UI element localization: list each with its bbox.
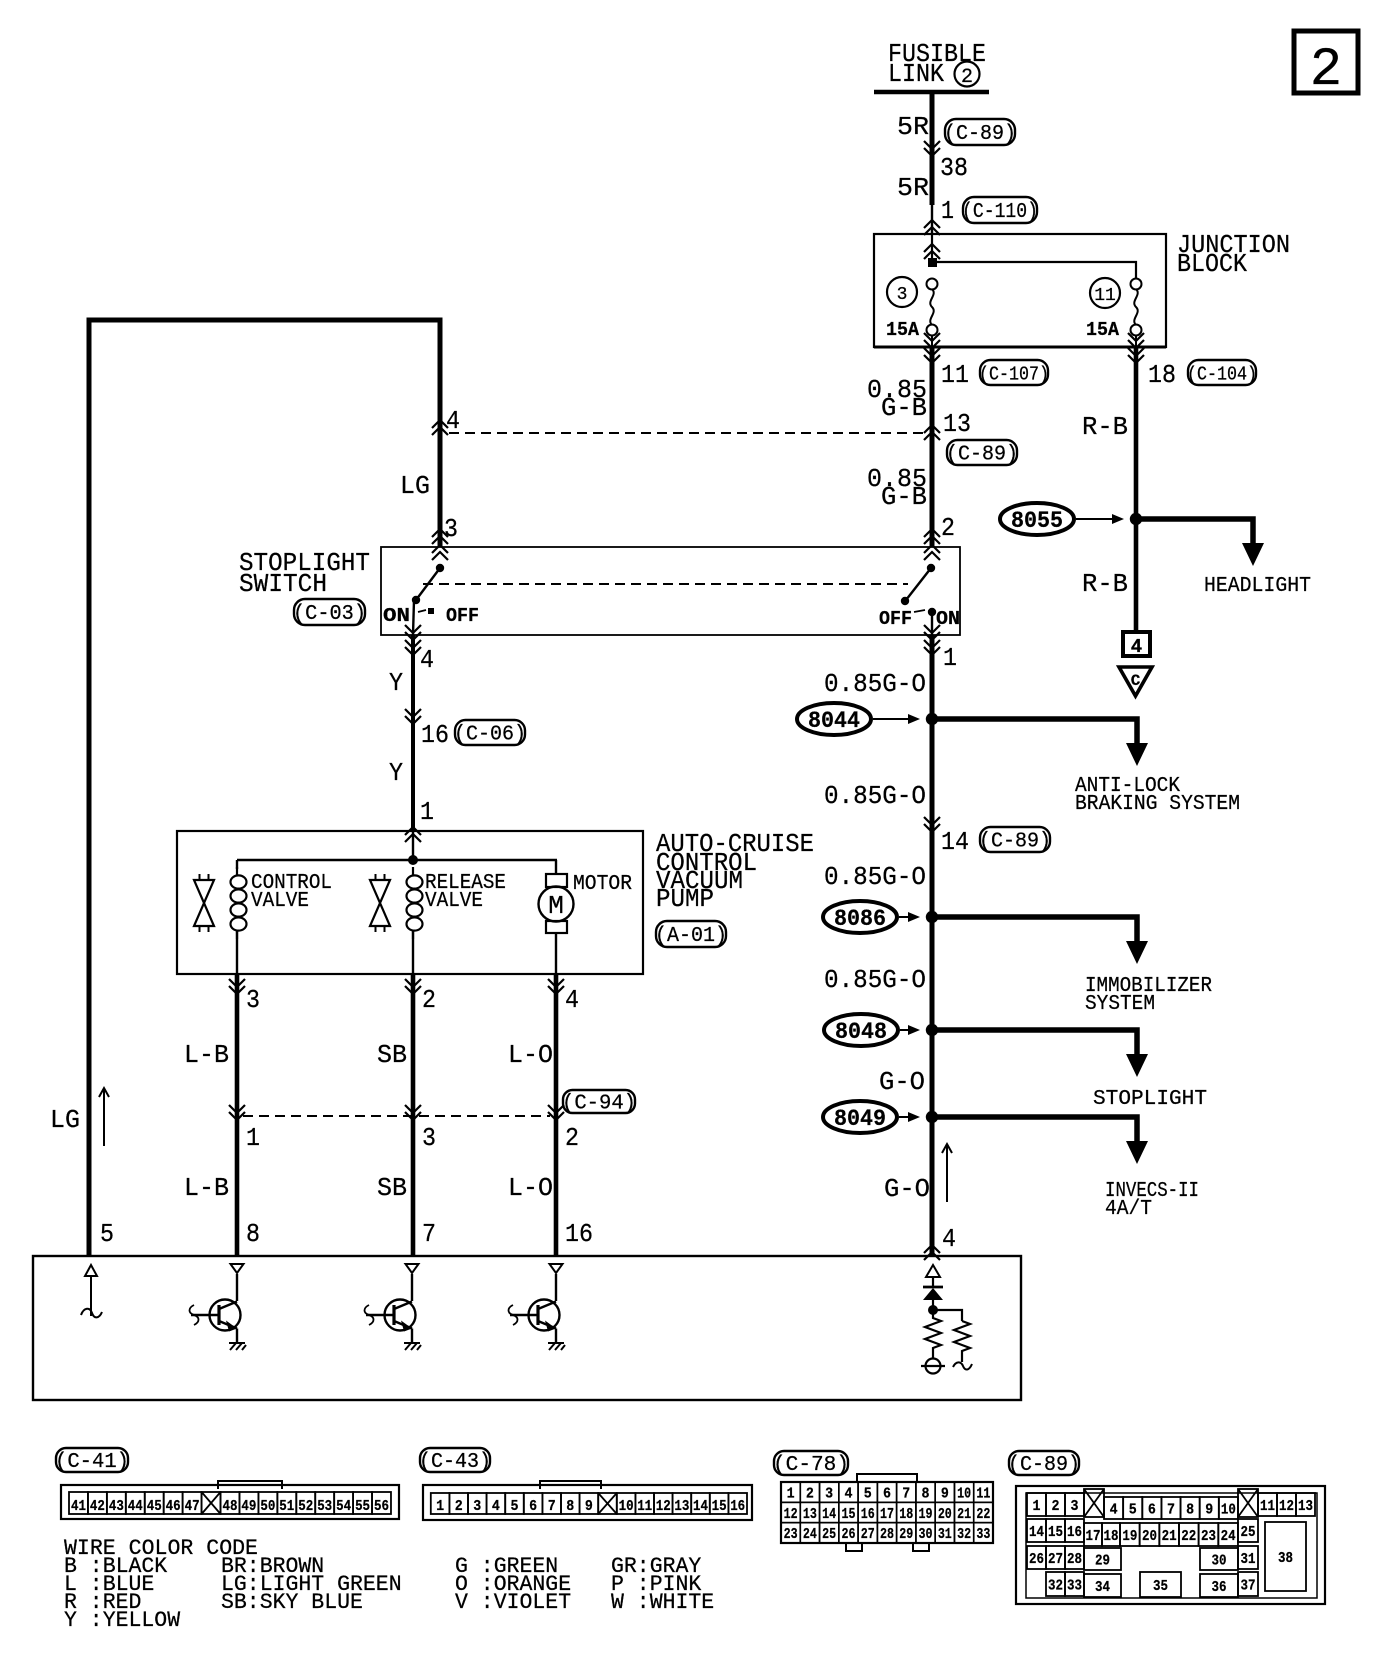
svg-text:3: 3 (473, 1498, 481, 1515)
svg-text:24: 24 (1221, 1528, 1236, 1545)
svg-text:3: 3 (897, 285, 908, 305)
wire into junction node (931, 234, 933, 262)
svg-text:(A-01): (A-01) (655, 925, 727, 948)
svg-text:13: 13 (1298, 1498, 1313, 1515)
svg-text:(C-94): (C-94) (562, 1093, 636, 1116)
svg-text:4: 4 (844, 1486, 852, 1503)
wire G-O main (930, 635, 935, 1256)
dashed link line C-94 (243, 1115, 550, 1117)
svg-text:14: 14 (822, 1506, 836, 1523)
ground oval 8049 (823, 1101, 897, 1133)
chevron into stoplight switch right (924, 529, 940, 560)
connector pill C-107 (979, 360, 1049, 386)
connector pill C-43 (419, 1448, 491, 1474)
svg-text:0.85G-O: 0.85G-O (824, 669, 926, 699)
label ANTI-LOCK BRAKING SYSTEM (1075, 775, 1240, 816)
svg-text:8086: 8086 (834, 906, 886, 932)
fusible link 2 label (888, 39, 986, 89)
chevron out of switch right pin 1 (924, 625, 940, 655)
release valve coil (407, 867, 423, 974)
svg-text:8048: 8048 (835, 1019, 887, 1045)
arrow 8044 to wire (873, 714, 920, 724)
pump internal bus (237, 859, 557, 861)
wire SB pump pin 2 (411, 974, 416, 1256)
svg-text:3: 3 (444, 514, 458, 544)
svg-text:44: 44 (128, 1498, 143, 1515)
svg-text:STOPLIGHT: STOPLIGHT (1093, 1088, 1207, 1111)
control valve symbol (194, 874, 214, 932)
svg-text:0.85G-O: 0.85G-O (824, 781, 926, 811)
svg-text:4A/T: 4A/T (1105, 1198, 1152, 1221)
svg-text:27: 27 (1048, 1551, 1063, 1568)
stoplight switch right pole (901, 564, 936, 635)
svg-text:43: 43 (109, 1498, 124, 1515)
svg-text:L-O: L-O (508, 1040, 553, 1070)
connector C-89 pin grid (1016, 1486, 1325, 1604)
page number box 2 (1294, 31, 1358, 101)
release valve label (425, 872, 506, 913)
junction dot 8044 (926, 713, 938, 725)
svg-text:46: 46 (166, 1498, 181, 1515)
branch to INVECS-II 4A/T (932, 1117, 1148, 1164)
chevron into pump pin 1 (405, 827, 421, 842)
stoplight switch label (239, 548, 370, 599)
svg-text:3: 3 (1071, 1498, 1079, 1515)
junction dot 8048 (926, 1024, 938, 1036)
svg-text:23: 23 (1201, 1528, 1216, 1545)
svg-text:7: 7 (1167, 1502, 1175, 1519)
svg-text:2: 2 (565, 1123, 579, 1153)
chevron out pump pin 3 (229, 979, 245, 994)
svg-text:26: 26 (1029, 1551, 1044, 1568)
svg-text:MOTOR: MOTOR (573, 873, 632, 896)
svg-text:28: 28 (880, 1526, 894, 1543)
svg-text:2: 2 (455, 1498, 463, 1515)
svg-text:7: 7 (422, 1219, 436, 1249)
svg-text:30: 30 (919, 1526, 933, 1543)
chevron on LG wire pin 4 (432, 420, 448, 435)
connector triangle C (1119, 667, 1152, 696)
svg-text:19: 19 (1122, 1528, 1137, 1545)
connector pill C-89 table (1008, 1451, 1080, 1477)
chevron pin 16 (405, 709, 421, 724)
svg-text:5: 5 (511, 1498, 519, 1515)
svg-text:56: 56 (374, 1498, 389, 1515)
svg-text:14: 14 (693, 1498, 708, 1515)
chevron C-94 pin 1 (229, 1105, 245, 1120)
svg-text:3: 3 (246, 985, 260, 1015)
connector pill C-06 (454, 720, 526, 747)
branch to stoplight (932, 1030, 1148, 1077)
fuse 11 body (1131, 279, 1142, 336)
svg-text:0.85G-O: 0.85G-O (824, 965, 926, 995)
transistor Q3 (509, 1264, 566, 1350)
wire Y (411, 635, 415, 831)
svg-text:15: 15 (712, 1498, 727, 1515)
svg-text:21: 21 (957, 1506, 971, 1523)
svg-text:5: 5 (100, 1219, 114, 1249)
svg-text:51: 51 (279, 1498, 294, 1515)
svg-text:(C-41): (C-41) (55, 1451, 129, 1474)
current direction arrow G-O (942, 1144, 952, 1202)
svg-text:BRAKING SYSTEM: BRAKING SYSTEM (1075, 793, 1240, 816)
junction block label (1177, 230, 1290, 279)
svg-text:VALVE: VALVE (425, 890, 483, 913)
svg-text:50: 50 (260, 1498, 275, 1515)
wire color code legend (64, 1536, 714, 1633)
wire 5R lower segment (931, 205, 933, 234)
sensor symbol pin 5 (81, 1265, 102, 1317)
connector C-78 pin grid (781, 1474, 993, 1551)
svg-text:Y :YELLOW: Y :YELLOW (64, 1608, 181, 1633)
svg-text:25: 25 (1241, 1524, 1256, 1541)
svg-text:41: 41 (71, 1498, 86, 1515)
svg-text:(C-78): (C-78) (773, 1454, 849, 1477)
svg-text:13: 13 (674, 1498, 689, 1515)
arrow 8086 to wire (899, 912, 920, 922)
connector C-43 pin grid (423, 1481, 752, 1520)
svg-text:10: 10 (619, 1498, 634, 1515)
svg-text:M: M (548, 891, 564, 921)
svg-text:18: 18 (1148, 360, 1176, 390)
svg-text:2: 2 (1310, 40, 1342, 101)
svg-text:8044: 8044 (808, 708, 860, 734)
svg-text:53: 53 (317, 1498, 332, 1515)
connector pill C-89 lower (979, 827, 1051, 854)
current direction arrow LG (99, 1088, 109, 1146)
svg-text:(C-89): (C-89) (1008, 1454, 1080, 1477)
wire L-B pump pin 3 (235, 974, 240, 1256)
connector pill C-78 (773, 1451, 849, 1477)
wire G-B from junction block (930, 347, 935, 547)
svg-text:29: 29 (899, 1526, 913, 1543)
switch dashed coupling line (423, 583, 908, 585)
svg-text:1: 1 (787, 1486, 795, 1503)
svg-text:15A: 15A (886, 319, 920, 341)
svg-text:42: 42 (90, 1498, 105, 1515)
svg-text:1: 1 (246, 1123, 260, 1153)
ground oval 8055 (1000, 503, 1074, 535)
chevron leaving fuse 11 (1128, 333, 1144, 363)
svg-text:15: 15 (1048, 1524, 1063, 1541)
wire LG long loop (89, 320, 440, 1256)
svg-text:8: 8 (922, 1486, 930, 1503)
svg-text:R-B: R-B (1082, 569, 1128, 599)
svg-text:11: 11 (976, 1486, 990, 1503)
svg-text:L-B: L-B (184, 1040, 229, 1070)
svg-text:38: 38 (940, 153, 968, 183)
svg-text:13: 13 (943, 409, 971, 439)
svg-text:17: 17 (1086, 1528, 1101, 1545)
svg-text:2: 2 (961, 66, 973, 89)
svg-text:SYSTEM: SYSTEM (1085, 993, 1155, 1016)
fusible link bus bar (874, 90, 989, 95)
svg-text:21: 21 (1162, 1528, 1177, 1545)
svg-text:(C-104): (C-104) (1187, 364, 1257, 386)
transistor Q1 (190, 1264, 247, 1350)
svg-text:(C-110): (C-110) (962, 201, 1038, 224)
svg-text:20: 20 (938, 1506, 952, 1523)
svg-text:(C-107): (C-107) (979, 364, 1049, 386)
pump internal feed wire (412, 831, 414, 861)
chevron out pump pin 2 (405, 979, 421, 994)
arrow 8055 to wire (1076, 514, 1124, 524)
connector pill C-41 (55, 1448, 129, 1474)
svg-text:16: 16 (730, 1498, 745, 1515)
svg-text:18: 18 (1104, 1528, 1119, 1545)
svg-text:29: 29 (1095, 1553, 1110, 1570)
junction dot 8086 (926, 911, 938, 923)
svg-text:17: 17 (880, 1506, 894, 1523)
svg-text:(C-89): (C-89) (944, 123, 1016, 146)
auto-cruise pump label (656, 829, 814, 914)
svg-text:8: 8 (1186, 1502, 1194, 1519)
svg-text:2: 2 (1052, 1498, 1060, 1515)
svg-text:8049: 8049 (834, 1106, 886, 1132)
connector pill A-01 (655, 921, 727, 948)
svg-text:35: 35 (1153, 1578, 1168, 1595)
svg-text:0.85G-O: 0.85G-O (824, 862, 926, 892)
svg-text:36: 36 (1212, 1579, 1227, 1596)
svg-text:Y: Y (389, 668, 403, 698)
svg-text:47: 47 (185, 1498, 200, 1515)
svg-text:23: 23 (784, 1526, 798, 1543)
ground oval 8048 (824, 1014, 898, 1046)
svg-text:11: 11 (1094, 286, 1116, 306)
svg-text:27: 27 (861, 1526, 875, 1543)
ground oval 8044 (797, 703, 871, 735)
svg-text:10: 10 (1221, 1502, 1236, 1519)
svg-text:Y: Y (389, 758, 403, 788)
terminal box 4 (1123, 632, 1150, 658)
svg-text:4: 4 (565, 985, 579, 1015)
svg-text:37: 37 (1241, 1578, 1256, 1595)
chevron pin 13 (924, 425, 940, 440)
svg-text:54: 54 (336, 1498, 351, 1515)
svg-text:33: 33 (976, 1526, 990, 1543)
svg-text:55: 55 (355, 1498, 370, 1515)
svg-text:14: 14 (1029, 1524, 1044, 1541)
svg-text:16: 16 (861, 1506, 875, 1523)
svg-text:32: 32 (957, 1526, 971, 1543)
svg-text:18: 18 (899, 1506, 913, 1523)
svg-text:33: 33 (1067, 1578, 1082, 1595)
svg-text:(C-43): (C-43) (419, 1451, 491, 1474)
wire R-B from junction block (1134, 347, 1139, 632)
fuse 11 circle label (1090, 278, 1120, 308)
svg-text:OFF: OFF (446, 605, 479, 627)
svg-text:9: 9 (585, 1498, 593, 1515)
svg-text:G-B: G-B (881, 482, 927, 512)
svg-text:15: 15 (841, 1506, 855, 1523)
svg-text:4: 4 (420, 645, 434, 675)
svg-text:7: 7 (548, 1498, 556, 1515)
svg-text:V :VIOLET: V :VIOLET (455, 1590, 571, 1615)
chevron into stoplight switch left (432, 529, 448, 560)
svg-text:11: 11 (941, 360, 969, 390)
svg-text:22: 22 (976, 1506, 990, 1523)
svg-text:W :WHITE: W :WHITE (611, 1590, 714, 1615)
svg-text:26: 26 (841, 1526, 855, 1543)
svg-text:PUMP: PUMP (656, 884, 714, 914)
arrow 8048 to wire (900, 1025, 920, 1035)
branch to anti-lock braking system (932, 719, 1148, 766)
wire across junction block (932, 262, 1136, 278)
svg-text:(C-06): (C-06) (454, 724, 526, 747)
svg-text:13: 13 (803, 1506, 817, 1523)
svg-text:(C-89): (C-89) (979, 831, 1051, 854)
svg-text:4: 4 (446, 406, 460, 436)
fuse 3 body (927, 279, 938, 336)
svg-text:5R: 5R (897, 173, 929, 203)
diode and resistor network (921, 1265, 972, 1374)
chevron pin 14 (924, 817, 940, 832)
svg-text:22: 22 (1181, 1528, 1196, 1545)
svg-text:31: 31 (938, 1526, 952, 1543)
svg-text:G-B: G-B (881, 393, 927, 423)
svg-text:30: 30 (1212, 1553, 1227, 1570)
wire L-O pump pin 4 (554, 974, 559, 1256)
chevron out of C-110 pin 1 (924, 220, 940, 235)
chevron C-94 pin 3 (405, 1105, 421, 1120)
connector pill C-104 (1187, 360, 1257, 386)
chevron into bottom unit pin 4 (924, 1245, 940, 1260)
svg-text:6: 6 (529, 1498, 537, 1515)
svg-text:6: 6 (883, 1486, 891, 1503)
svg-text:LINK: LINK (888, 59, 944, 89)
motor M (539, 860, 574, 974)
branch to headlight (1136, 519, 1264, 566)
connector pill C-94 (562, 1090, 636, 1116)
svg-text:1: 1 (943, 643, 957, 673)
connector pill C-110 (962, 197, 1038, 224)
connector pill C-89 top (944, 119, 1016, 146)
svg-text:7: 7 (902, 1486, 910, 1503)
arrow 8049 to wire (899, 1112, 920, 1122)
chevron C-94 pin 2 (548, 1105, 564, 1120)
svg-text:1: 1 (420, 797, 434, 827)
svg-text:2: 2 (806, 1486, 814, 1503)
svg-text:14: 14 (941, 827, 969, 857)
svg-text:24: 24 (803, 1526, 817, 1543)
junction dot 8049 (926, 1111, 938, 1123)
svg-text:5: 5 (864, 1486, 872, 1503)
svg-text:G-O: G-O (879, 1067, 925, 1097)
svg-text:L-B: L-B (184, 1173, 229, 1203)
junction block box (874, 234, 1166, 347)
svg-text:HEADLIGHT: HEADLIGHT (1204, 575, 1311, 598)
dash between OFF and ON (914, 610, 925, 612)
junction dot headlight (1130, 513, 1142, 525)
bottom control unit box (33, 1256, 1021, 1400)
svg-text:SB: SB (377, 1040, 407, 1070)
svg-text:SB:SKY BLUE: SB:SKY BLUE (221, 1590, 363, 1615)
chevron entering junction block (924, 244, 940, 259)
label INVECS-II 4A/T (1105, 1180, 1199, 1221)
connector C-41 pin grid (61, 1481, 399, 1519)
transistor Q2 (365, 1264, 422, 1350)
svg-text:48: 48 (222, 1498, 237, 1515)
OFF contact left (418, 608, 434, 614)
svg-text:ON: ON (383, 605, 410, 627)
svg-text:20: 20 (1142, 1528, 1157, 1545)
wire 5R from fusible link (930, 92, 935, 205)
svg-text:32: 32 (1048, 1578, 1063, 1595)
svg-text:LG: LG (50, 1105, 80, 1135)
connector pill C-89 mid (946, 440, 1018, 467)
svg-text:16: 16 (421, 720, 449, 750)
svg-text:3: 3 (422, 1123, 436, 1153)
svg-text:2: 2 (422, 985, 436, 1015)
label IMMOBILIZER SYSTEM (1085, 975, 1212, 1016)
svg-text:1: 1 (1033, 1498, 1041, 1515)
label 0.85 G-B upper (867, 375, 927, 423)
chevron out of switch left pin 4 (405, 625, 421, 655)
svg-text:SB: SB (377, 1173, 407, 1203)
svg-text:BLOCK: BLOCK (1177, 249, 1247, 279)
svg-text:9: 9 (1205, 1502, 1213, 1519)
chevron into C-89 pin 38 (924, 141, 940, 156)
control valve coil (231, 860, 247, 974)
svg-text:1: 1 (436, 1498, 444, 1515)
svg-text:11: 11 (637, 1498, 652, 1515)
ground oval 8086 (823, 901, 897, 933)
svg-text:28: 28 (1067, 1551, 1082, 1568)
svg-text:10: 10 (957, 1486, 971, 1503)
svg-text:LG: LG (400, 471, 430, 501)
svg-text:12: 12 (1279, 1498, 1294, 1515)
svg-text:34: 34 (1095, 1579, 1110, 1596)
svg-text:52: 52 (298, 1498, 313, 1515)
svg-text:C: C (1131, 672, 1141, 690)
junction node square dot (928, 258, 937, 267)
connector pill C-03 (293, 599, 366, 626)
svg-text:4: 4 (1110, 1502, 1118, 1519)
svg-text:1: 1 (941, 196, 954, 226)
svg-text:12: 12 (784, 1506, 798, 1523)
svg-text:8: 8 (246, 1219, 260, 1249)
svg-text:49: 49 (241, 1498, 256, 1515)
svg-text:4: 4 (492, 1498, 500, 1515)
stoplight switch box (381, 547, 960, 635)
svg-text:16: 16 (1067, 1524, 1082, 1541)
fuse 3 circle label (887, 277, 917, 307)
svg-text:12: 12 (656, 1498, 671, 1515)
auto-cruise pump box (177, 831, 643, 974)
svg-text:11: 11 (1260, 1498, 1275, 1515)
svg-text:45: 45 (147, 1498, 162, 1515)
pump internal junction dot (408, 855, 418, 865)
svg-text:3: 3 (825, 1486, 833, 1503)
control valve label (251, 872, 332, 913)
svg-text:38: 38 (1278, 1550, 1293, 1567)
svg-text:VALVE: VALVE (251, 890, 309, 913)
svg-text:8: 8 (566, 1498, 574, 1515)
svg-text:8055: 8055 (1011, 508, 1063, 534)
svg-text:25: 25 (822, 1526, 836, 1543)
svg-text:5: 5 (1129, 1502, 1137, 1519)
svg-text:4: 4 (942, 1224, 956, 1254)
svg-text:L-O: L-O (508, 1173, 553, 1203)
svg-text:19: 19 (919, 1506, 933, 1523)
svg-text:16: 16 (565, 1219, 593, 1249)
svg-text:G-O: G-O (884, 1174, 930, 1204)
stoplight switch left pole (412, 564, 444, 635)
label 0.85 G-B lower (867, 464, 927, 512)
dashed link line C-89 row (449, 432, 929, 434)
svg-text:(C-89): (C-89) (946, 444, 1018, 467)
svg-text:31: 31 (1241, 1551, 1256, 1568)
